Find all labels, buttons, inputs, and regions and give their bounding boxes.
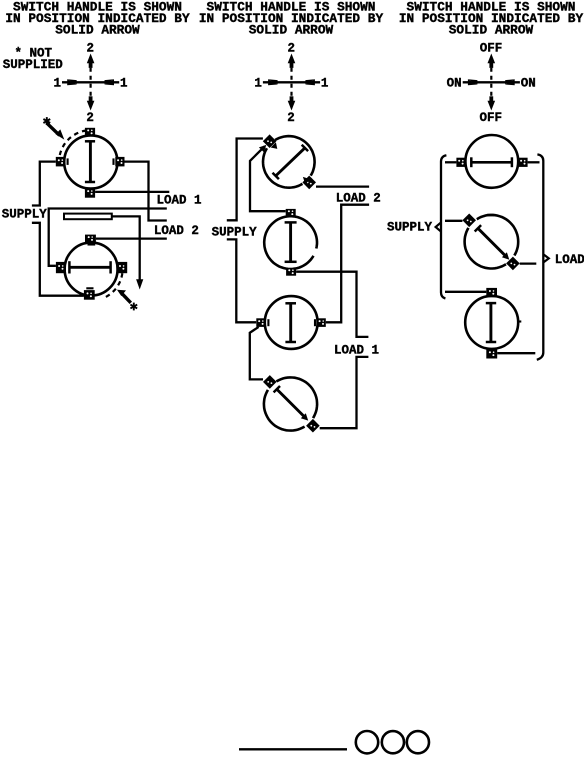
svg-text:SOLID ARROW: SOLID ARROW — [249, 23, 334, 38]
footer circle 2 — [382, 731, 404, 753]
switch S3 handle (diagonal SW-NE) — [273, 145, 309, 179]
wire: LOAD 2 to S5 right terminal — [326, 205, 369, 323]
svg-text:LOAD 1: LOAD 1 — [334, 343, 379, 357]
wire: S8 lower-right terminal to LOAD brace — [520, 262, 537, 264]
footer circle 3 — [407, 731, 429, 753]
switch S6 handle (diagonal NW-SE) — [274, 386, 309, 421]
switch S9 body — [465, 296, 518, 349]
switch S6 body (gaps at diagonal terminals) — [264, 377, 317, 430]
wire: S3 upper-left terminal to S4 top terminal — [250, 146, 286, 211]
switch S2 handle (horizontal) — [69, 261, 112, 273]
arrow mark at S3 upper-left terminal — [271, 142, 278, 149]
wire: LOAD 1 to S6 lower-right terminal — [320, 357, 369, 428]
wire: S9 bottom terminal to LOAD brace — [497, 352, 535, 354]
terminal S4 (bottom) — [286, 268, 296, 276]
label LOAD 1 (column 2) — [334, 343, 379, 357]
terminal S6 (upper-left diamond) — [263, 375, 277, 389]
terminal S2 (bottom) — [84, 288, 95, 299]
wire: S1 bottom terminal to LOAD 1 — [95, 191, 169, 193]
asterisk marker at S1 pointer — [43, 117, 50, 125]
terminal S3 (lower-right diamond) — [302, 176, 316, 190]
svg-text:OFF: OFF — [480, 111, 503, 125]
terminal S8 (lower-right diamond) — [506, 257, 520, 271]
switch S3 body (gaps at diagonal terminals) — [263, 136, 315, 188]
terminal S1 pin 1 (right) — [114, 157, 125, 167]
label SUPPLY (column 1) — [2, 207, 48, 221]
terminal S5 (left) — [256, 318, 268, 327]
LOAD brace (column 3) — [537, 154, 549, 359]
terminal S9 (bottom) — [486, 349, 497, 358]
svg-text:SUPPLIED: SUPPLIED — [3, 58, 64, 72]
arrow mark at S3 lower-right terminal — [303, 177, 310, 184]
pointer arrow to S1 not-supplied position — [47, 123, 65, 140]
svg-text:SUPPLY: SUPPLY — [387, 221, 433, 235]
label LOAD 2 (column 1) — [154, 224, 199, 238]
switch S5 handle (vertical) — [285, 303, 296, 342]
label SUPPLY (column 2) — [212, 226, 258, 240]
arrow mark on S3 supply wire — [259, 145, 266, 152]
asterisk marker at S2 pointer — [130, 303, 137, 311]
switch S1 body — [64, 135, 117, 188]
svg-text:1: 1 — [321, 77, 329, 91]
svg-text:2: 2 — [287, 111, 295, 125]
svg-text:1: 1 — [120, 77, 128, 91]
terminal S9 (top) — [486, 288, 497, 297]
wire: S3 lower-right terminal to LOAD 2 — [316, 185, 369, 187]
wire: S2 top terminal to LOAD 2 — [96, 237, 167, 239]
terminal S2 (right) — [116, 262, 127, 273]
wire: S7 right terminal to LOAD brace — [528, 161, 540, 163]
wire: SUPPLY upper branch to S1 left terminal — [32, 162, 56, 206]
terminal S3 (upper-left diamond) — [263, 134, 277, 148]
wire: SUPPLY lower branch to S5 left terminal — [227, 239, 256, 322]
tick at S9 right position — [518, 320, 521, 322]
terminal S7 (right) — [518, 158, 527, 167]
note: * NOT SUPPLIED — [3, 47, 64, 72]
terminal S2 (top) — [85, 235, 96, 245]
switch S9 handle (vertical) — [486, 303, 496, 342]
terminal S7 (left) — [456, 158, 465, 167]
svg-text:SUPPLY: SUPPLY — [212, 226, 258, 240]
svg-text:SUPPLY: SUPPLY — [2, 207, 48, 221]
label SUPPLY (column 3) — [387, 221, 433, 235]
wire: S1 right terminal to LOAD 2 — [125, 162, 167, 221]
svg-text:SOLID ARROW: SOLID ARROW — [449, 23, 534, 38]
terminal S2 (left) — [56, 262, 66, 273]
label LOAD (column 3) — [555, 253, 584, 267]
terminal S1 pin 2 (top, not supplied) — [85, 128, 95, 136]
terminal S5 (right) — [315, 318, 326, 327]
terminal S8 (upper-left diamond) — [462, 214, 476, 228]
svg-text:1: 1 — [254, 77, 262, 91]
svg-text:LOAD 2: LOAD 2 — [154, 224, 199, 238]
switch S5 body — [265, 296, 318, 349]
switch S7 body — [465, 135, 518, 188]
terminal S6 (lower-right diamond) — [306, 419, 320, 433]
wire: S5 left terminal to S6 upper-left terminal — [250, 327, 263, 380]
svg-text:ON: ON — [521, 77, 536, 91]
wire: S9 top terminal to SUPPLY brace — [445, 291, 486, 293]
svg-text:ON: ON — [447, 77, 462, 91]
footer circle 1 — [356, 731, 378, 753]
position crosshair column 2 (positions 1-1 / 2-2) — [254, 41, 328, 125]
wire: S3 upper-left terminal to SUPPLY — [227, 139, 263, 221]
switch S7 handle (horizontal) — [471, 157, 513, 167]
svg-text:SOLID ARROW: SOLID ARROW — [55, 23, 140, 38]
switch S8 handle (diagonal NW-SE) — [475, 225, 510, 260]
wire: SUPPLY lower branch to S2 bottom terminal — [32, 223, 84, 296]
svg-text:LOAD 1: LOAD 1 — [157, 194, 202, 208]
header column 3 — [399, 0, 584, 38]
label LOAD 2 (column 2) — [336, 191, 381, 205]
position crosshair column 3 (ON-ON / OFF-OFF) — [447, 41, 536, 125]
tick at S8 top position — [487, 214, 494, 216]
arrow from handle bar down to S2 — [112, 216, 144, 289]
terminal S1 pin 1 (left) — [56, 157, 68, 167]
wire: S4 bottom terminal to LOAD 1 — [296, 272, 368, 337]
svg-text:OFF: OFF — [480, 41, 503, 55]
position crosshair column 1 (positions 1-1 / 2-2) — [53, 41, 127, 125]
switch S2 body — [65, 243, 118, 296]
svg-text:LOAD 2: LOAD 2 — [336, 191, 381, 205]
dashed arc: S1 not-supplied position — [60, 131, 87, 156]
header column 1 — [5, 0, 190, 38]
SUPPLY brace (column 3) — [436, 155, 447, 298]
svg-text:2: 2 — [87, 41, 95, 55]
label LOAD 1 (column 1) — [157, 194, 202, 208]
footer signature line — [239, 748, 347, 750]
switch S4 body (gap at right) — [264, 216, 317, 269]
dashed arc: S2 not-supplied position — [106, 272, 123, 297]
header column 2 — [199, 0, 384, 38]
terminal S1 pin 2 (bottom) — [85, 188, 95, 198]
svg-text:1: 1 — [53, 77, 61, 91]
wire: S7 left terminal to SUPPLY brace — [445, 161, 456, 163]
svg-text:LOAD: LOAD — [555, 253, 584, 267]
svg-text:2: 2 — [86, 111, 94, 125]
switch S4 handle (vertical) — [285, 222, 297, 262]
handle bar (not supplied, column 1) — [64, 214, 112, 220]
pointer arrow to S2 not-supplied position — [117, 290, 131, 303]
wire: LOAD 1 to S2 left terminal — [49, 209, 167, 266]
wire: S8 upper-left terminal to SUPPLY brace — [445, 220, 462, 222]
switch S8 body (gaps at diagonal terminals) — [465, 215, 519, 269]
switch S1 handle (vertical) — [85, 141, 95, 182]
terminal S4 (top) — [286, 209, 296, 217]
svg-text:2: 2 — [287, 41, 295, 55]
